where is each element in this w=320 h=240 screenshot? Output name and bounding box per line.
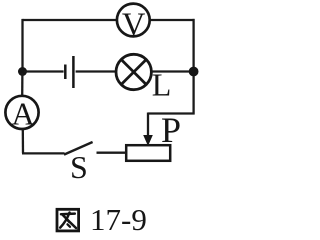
switch S blade — [64, 142, 93, 155]
wire battery to lamp — [76, 70, 117, 72]
svg-text:V: V — [122, 7, 146, 43]
wire bottom horizontal to switch — [22, 152, 65, 154]
wire switch to rheostat — [97, 152, 127, 154]
svg-text:S: S — [70, 149, 88, 185]
lamp cross stroke 2 — [121, 60, 146, 85]
svg-text:A: A — [11, 96, 34, 132]
battery negative plate (short) — [64, 65, 67, 80]
wire battery left lead — [24, 70, 64, 72]
lamp cross stroke 1 — [121, 60, 146, 85]
wire left vertical to ammeter — [21, 73, 23, 96]
wire ammeter down — [22, 129, 25, 153]
battery positive plate (long) — [72, 56, 75, 88]
rheostat slider arrowhead — [143, 135, 153, 146]
lamp L circle — [116, 54, 151, 89]
wire lamp to right rail — [152, 70, 190, 72]
node junction right (dot) — [189, 67, 199, 77]
wire right vertical rail — [192, 19, 194, 115]
caption hanzi tu (drawn glyph) — [57, 209, 79, 231]
rheostat R body box — [126, 145, 170, 161]
rheostat slider arrow shaft — [147, 113, 149, 138]
svg-text:17-9: 17-9 — [90, 202, 147, 237]
wire top-left horizontal (battery branch top) — [23, 19, 118, 21]
ammeter U2 circle — [5, 96, 38, 129]
wire right rail to slider horizontal — [148, 112, 195, 114]
node junction left (dot) — [18, 67, 27, 76]
wire top-right horizontal (voltmeter to right rail) — [150, 19, 195, 21]
wire left vertical upper — [21, 19, 23, 70]
voltmeter U1 circle — [117, 4, 150, 37]
